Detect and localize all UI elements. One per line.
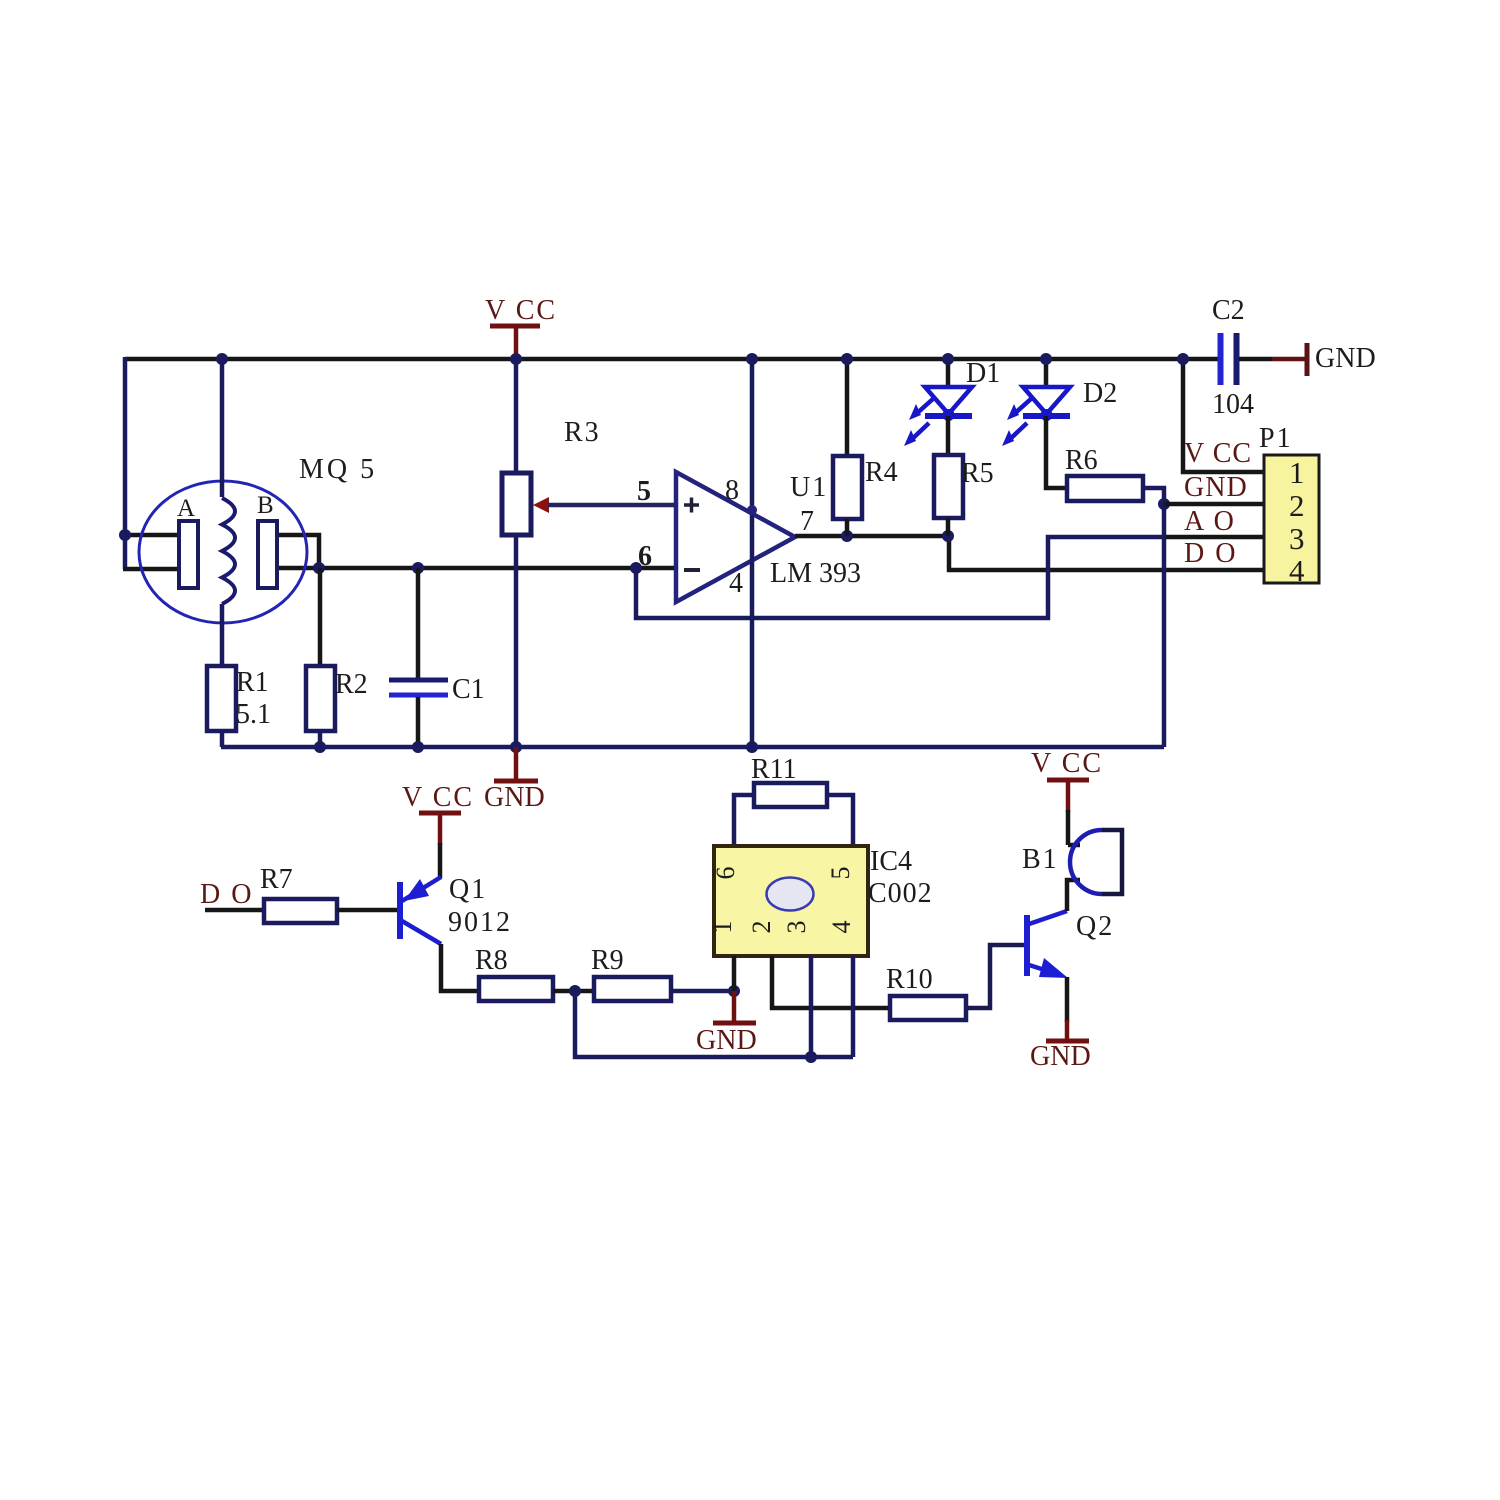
svg-text:1: 1	[708, 921, 737, 934]
sensor MQ5 body circle	[139, 481, 307, 623]
wire: GND to P1 pin 2	[1164, 502, 1264, 507]
svg-text:C2: C2	[1212, 295, 1245, 326]
svg-text:V CC: V CC	[1184, 438, 1252, 469]
wire: R8/R9 tap down to pin3 line	[575, 991, 853, 1057]
svg-text:R2: R2	[335, 669, 368, 700]
svg-text:3: 3	[782, 921, 811, 934]
svg-text:4: 4	[1289, 553, 1305, 588]
wire: IC4 pin3 lead	[809, 956, 814, 1057]
node: junction VCC on top bus	[510, 353, 522, 365]
sensor MQ5 heater coil	[222, 498, 235, 604]
svg-text:2: 2	[1289, 488, 1305, 523]
resistor R11	[734, 783, 853, 847]
svg-text:D O: D O	[200, 879, 253, 910]
svg-text:V CC: V CC	[402, 782, 474, 813]
svg-text:R3: R3	[564, 417, 601, 448]
LED D1	[904, 359, 972, 446]
VCC symbol top	[485, 295, 557, 359]
svg-text:R7: R7	[260, 864, 293, 895]
resistor R5	[934, 416, 963, 536]
node: junction supply vertical on top bus	[746, 353, 758, 365]
svg-text:R9: R9	[591, 945, 624, 976]
node: junction R2 on signal net	[313, 562, 325, 574]
svg-text:GND: GND	[1184, 472, 1248, 503]
op-amp U1 LM393	[676, 472, 795, 602]
svg-text:R8: R8	[475, 945, 508, 976]
IC U IC4 C002	[708, 846, 868, 956]
resistor R9	[594, 977, 671, 1001]
svg-text:Q1: Q1	[449, 874, 487, 905]
connector P1	[1264, 455, 1319, 588]
wire: R9 to IC4 pin 1	[671, 989, 734, 994]
node: junction D2 on top bus	[1040, 353, 1052, 365]
GND symbol of IC4	[696, 991, 757, 1056]
sensor MQ5 electrode B plate	[258, 521, 277, 588]
potentiometer R3	[502, 359, 549, 747]
node: junction pin6 / AO feedback	[630, 562, 642, 574]
node: junction R5 on output	[942, 530, 954, 542]
node: junction R2 on ground bus	[314, 741, 326, 753]
svg-text:B1: B1	[1022, 844, 1059, 875]
node: junction C1 on ground bus	[412, 741, 424, 753]
capacitor C2	[1221, 333, 1306, 385]
svg-text:8: 8	[725, 475, 739, 506]
wire: R10 to Q2 base	[966, 945, 1026, 1008]
VCC symbol of buzzer	[1031, 748, 1103, 845]
wire: AO net P1 pin3 to inverting input	[1162, 535, 1264, 540]
node: junction IC4 pin1 / GND	[728, 985, 740, 997]
wire: electrode A upper link	[123, 533, 180, 538]
sensor MQ5 electrode A plate	[179, 521, 198, 588]
svg-text:B: B	[257, 492, 274, 519]
node: junction C1 on signal net	[412, 562, 424, 574]
wire: IC4 pin1 lead	[732, 956, 737, 991]
wire: VCC to P1 pin 1	[1183, 359, 1264, 472]
wire: R6 to ground drop	[1143, 488, 1164, 747]
wire: IC4 pin2 to R10	[772, 956, 890, 1008]
wire: electrode B upper link	[277, 535, 319, 568]
wire: top VCC bus	[125, 357, 1218, 362]
resistor R6	[1067, 476, 1143, 501]
svg-text:5: 5	[637, 476, 651, 507]
svg-text:R11: R11	[751, 754, 797, 785]
node: junction GND pin wire	[1158, 498, 1170, 510]
svg-text:R5: R5	[961, 458, 994, 489]
wire: signal net from electrode B to op-amp pin 6	[277, 566, 676, 571]
node: junction left vertical / A upper link	[119, 529, 131, 541]
svg-text:R4: R4	[865, 457, 898, 488]
wire: ground bus	[221, 745, 1164, 750]
buzzer B1	[1070, 830, 1122, 894]
resistor R2	[306, 568, 335, 747]
svg-text:U1: U1	[790, 472, 828, 503]
wire: Q1 collector down and to R8	[441, 944, 479, 991]
svg-text:LM 393: LM 393	[770, 558, 861, 589]
node: junction D1 on top bus	[942, 353, 954, 365]
svg-text:R1: R1	[236, 667, 269, 698]
svg-text:A: A	[177, 495, 195, 522]
ground bar for C2	[1305, 343, 1310, 376]
svg-text:GND: GND	[484, 782, 545, 813]
node: junction P1 VCC on top bus	[1177, 353, 1189, 365]
wire: op-amp output pin 7 to DO pin of P1	[795, 536, 1264, 570]
wire: D2 cathode down to R6	[1046, 416, 1067, 488]
GND symbol of Q2	[1030, 1020, 1091, 1072]
wire: DO to R7	[205, 908, 264, 913]
node: junction supply vertical on ground bus	[746, 741, 758, 753]
resistor R8	[479, 977, 553, 1001]
svg-text:1: 1	[1289, 455, 1305, 490]
svg-text:A O: A O	[1184, 506, 1236, 537]
svg-text:2: 2	[747, 921, 776, 934]
svg-text:D1: D1	[966, 358, 1000, 389]
sensor MQ5 heater top wire	[220, 359, 225, 497]
resistor R4	[833, 359, 862, 536]
svg-text:MQ 5: MQ 5	[299, 454, 377, 485]
wire: Q2 emitter to GND	[1065, 977, 1070, 1022]
svg-text:V CC: V CC	[1031, 748, 1103, 779]
wire: op-amp supply vertical (pins 8/4)	[750, 359, 755, 747]
svg-text:GND: GND	[1030, 1041, 1091, 1072]
svg-text:5: 5	[826, 867, 855, 880]
node: junction R8/R9 tap	[569, 985, 581, 997]
svg-text:4: 4	[729, 568, 743, 599]
svg-text:P1: P1	[1259, 423, 1293, 454]
svg-text:GND: GND	[1315, 343, 1376, 374]
svg-text:C002: C002	[868, 878, 933, 909]
LED D2	[1002, 359, 1070, 446]
svg-text:R10: R10	[886, 964, 933, 995]
resistor R1	[207, 666, 236, 747]
svg-text:R6: R6	[1065, 445, 1098, 476]
svg-text:6: 6	[638, 541, 652, 572]
wire: R7 to Q1 base	[337, 908, 398, 913]
transistor Q2	[1024, 911, 1068, 978]
svg-text:104: 104	[1212, 389, 1254, 420]
node: junction heater on top bus	[216, 353, 228, 365]
svg-text:IC4: IC4	[870, 846, 912, 877]
node: junction on op-amp upper edge	[747, 505, 757, 515]
svg-text:V CC: V CC	[485, 295, 557, 326]
svg-text:4: 4	[827, 921, 856, 934]
svg-text:5.1: 5.1	[236, 699, 271, 730]
svg-text:6: 6	[711, 867, 740, 880]
svg-text:Q2: Q2	[1076, 911, 1114, 942]
resistor R7	[264, 899, 337, 923]
svg-text:C1: C1	[452, 674, 485, 705]
svg-text:7: 7	[800, 506, 814, 537]
capacitor C1	[389, 568, 448, 747]
wire: IC4 pin4 lead	[851, 956, 856, 1057]
wire: VCC to buzzer top	[1068, 843, 1080, 848]
svg-text:GND: GND	[696, 1025, 757, 1056]
node: junction R4 on top bus	[841, 353, 853, 365]
svg-text:9012: 9012	[448, 907, 512, 938]
node: junction IC4 pin3	[805, 1051, 817, 1063]
svg-text:D2: D2	[1083, 378, 1117, 409]
sensor MQ5 heater bottom wire	[220, 604, 225, 667]
wire: left vertical from bus to sensor A loop	[123, 357, 128, 569]
svg-text:3: 3	[1289, 521, 1305, 556]
GND symbol of analog section	[484, 747, 545, 813]
wire: Q2 collector to buzzer	[1067, 880, 1080, 911]
wire: R8 to R9	[553, 989, 594, 994]
wire: wiper to op-amp pin 5	[548, 503, 676, 508]
VCC symbol of Q1	[402, 782, 474, 878]
transistor Q1 9012	[397, 877, 441, 944]
node: junction R4 on output	[841, 530, 853, 542]
node: junction GND symbol on ground bus	[510, 741, 522, 753]
resistor R10	[890, 996, 966, 1020]
wire: electrode A lower link	[123, 567, 180, 572]
svg-text:D O: D O	[1184, 538, 1237, 569]
